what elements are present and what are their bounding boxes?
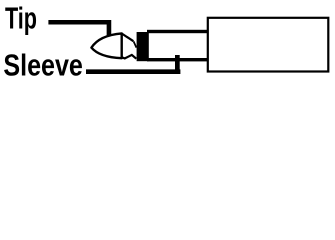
plug groove notch bottom	[122, 55, 137, 59]
plug groove notch top	[122, 34, 134, 42]
plug insulator band	[137, 32, 149, 61]
svg-text:Tip: Tip	[5, 1, 37, 36]
plug groove notch top dive	[134, 41, 137, 47]
plug body housing	[208, 18, 328, 72]
plug sleeve shaft bottom line	[147, 58, 209, 61]
wire tip lead	[48, 22, 109, 41]
wire sleeve lead	[86, 69, 180, 74]
plug tip cone	[91, 33, 121, 58]
svg-text:Sleeve: Sleeve	[3, 47, 83, 82]
wire sleeve riser	[175, 55, 180, 74]
plug sleeve shaft top line	[147, 30, 209, 33]
